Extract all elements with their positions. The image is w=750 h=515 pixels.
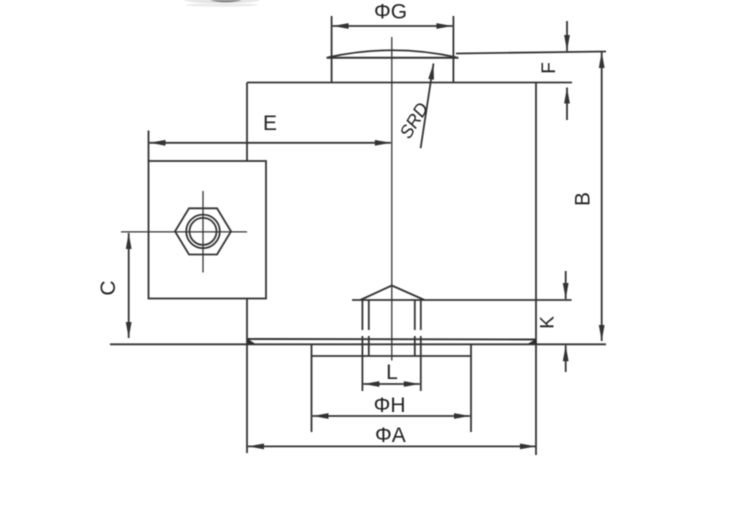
bottom boss left edge + PhiH extension	[311, 345, 313, 433]
gland outer circle	[186, 215, 220, 249]
svg-text:K: K	[538, 316, 559, 329]
L extension line right	[420, 356, 422, 391]
thread hole outer-left dashed line	[361, 300, 363, 356]
svg-text:F: F	[539, 62, 560, 74]
load button left edge + PhiG extension	[331, 16, 333, 83]
dimension PhiH	[313, 415, 471, 417]
thread cone left face	[360, 286, 392, 301]
thread hole inner-left dashed line	[368, 300, 370, 356]
flange bottom edge + C extension left + B/K extension right	[110, 343, 606, 345]
gland crosshair vertical	[202, 191, 204, 273]
hex nut cable gland	[175, 208, 231, 254]
bottom step line / thread cone base + K extension	[352, 299, 572, 301]
body outline: main cylinder right edge + PhiA extension	[535, 83, 537, 456]
load button flat seat line	[327, 57, 459, 59]
thread cone right face	[392, 286, 425, 301]
body outline: main cylinder left edge lower segment + PhiA extension	[246, 299, 248, 454]
dimension C	[128, 233, 130, 338]
body top edge + extension to F dimension	[247, 82, 572, 84]
svg-text:E: E	[263, 112, 277, 135]
load button right edge + PhiG extension	[452, 16, 454, 83]
L extension line left	[361, 356, 363, 391]
photo artifact blob top edge	[184, 0, 260, 7]
dimension K lower arrow	[565, 345, 567, 372]
dimension PhiA	[248, 445, 536, 447]
cable entry box outline	[149, 161, 267, 299]
load button spherical top (SRD arc)	[328, 50, 456, 57]
dimension F lower arrow	[566, 88, 568, 121]
center axis line	[391, 37, 393, 361]
gland crosshair horizontal + C extension	[121, 231, 247, 233]
E dimension extension above box	[148, 131, 150, 162]
SRD leader arrow	[421, 64, 434, 149]
dimension L	[363, 383, 419, 385]
dimension K upper arrow	[565, 271, 567, 299]
svg-text:B: B	[572, 192, 595, 206]
dimension B	[601, 52, 603, 341]
thread hole inner-right dashed line	[414, 300, 416, 356]
svg-text:L: L	[386, 361, 398, 384]
svg-text:ΦH: ΦH	[374, 394, 406, 417]
thread hole outer-right dashed line	[420, 300, 422, 356]
dimension F upper arrow	[566, 21, 568, 51]
gland inner circle	[190, 218, 217, 245]
dimension E	[150, 142, 391, 144]
bottom boss right edge + PhiH extension	[470, 345, 472, 433]
svg-text:C: C	[97, 280, 120, 295]
flange left lip	[248, 339, 257, 345]
body outline: main cylinder left edge upper segment	[246, 83, 248, 162]
bottom boss shoulder line	[312, 355, 472, 357]
svg-text:ΦG: ΦG	[374, 1, 407, 24]
extension line from button top to F/B dimensions	[456, 52, 606, 54]
flange right lip	[527, 339, 536, 344]
flange top edge	[247, 338, 536, 341]
dimension PhiG	[333, 25, 453, 27]
svg-text:ΦA: ΦA	[375, 424, 406, 447]
